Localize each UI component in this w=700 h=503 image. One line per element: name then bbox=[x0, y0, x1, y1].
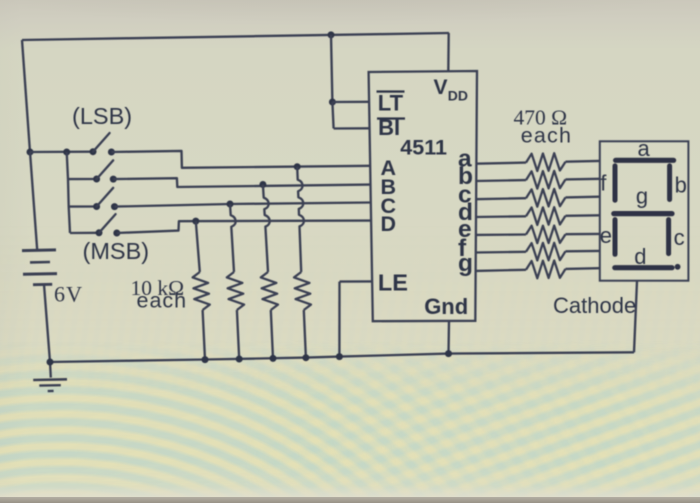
svg-text:g: g bbox=[458, 250, 473, 277]
svg-text:V: V bbox=[434, 76, 448, 99]
svg-text:a: a bbox=[638, 136, 651, 161]
svg-text:DD: DD bbox=[448, 88, 468, 104]
svg-text:4511: 4511 bbox=[400, 136, 447, 160]
svg-text:f: f bbox=[600, 171, 607, 196]
svg-text:each: each bbox=[137, 289, 188, 313]
svg-text:BI: BI bbox=[378, 115, 400, 140]
svg-text:6 V: 6 V bbox=[54, 282, 82, 307]
svg-text:(MSB): (MSB) bbox=[83, 238, 150, 264]
svg-text:LE: LE bbox=[378, 269, 408, 295]
svg-text:each: each bbox=[521, 124, 572, 148]
svg-text:D: D bbox=[381, 212, 397, 236]
svg-text:b: b bbox=[675, 172, 687, 197]
svg-text:c: c bbox=[674, 225, 685, 250]
svg-text:g: g bbox=[636, 184, 648, 209]
svg-text:Cathode: Cathode bbox=[553, 293, 636, 318]
svg-text:d: d bbox=[634, 244, 646, 269]
svg-text:e: e bbox=[600, 223, 612, 248]
svg-text:LT: LT bbox=[378, 90, 404, 115]
svg-text:Gnd: Gnd bbox=[424, 294, 468, 319]
svg-text:(LSB): (LSB) bbox=[72, 103, 132, 129]
